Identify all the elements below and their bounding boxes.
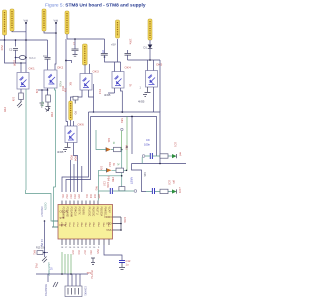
IC left pin stubs [52, 221, 58, 227]
IC bottom pin stubs [62, 239, 109, 245]
wire teal1 into IC [26, 190, 58, 221]
wire rail corner down at x104.5 [104, 39, 106, 54]
ground C7 [73, 55, 78, 57]
parts under OK6 [63, 143, 71, 152]
svg-text:+5V: +5V [111, 43, 116, 47]
wire label Y2 link [12, 30, 26, 33]
wire rail2 [67, 38, 105, 40]
resistor R14 [160, 189, 168, 193]
capacitor C2 [13, 49, 18, 51]
svg-text:ST8: ST8 [60, 216, 65, 220]
wire C5 to box4 pins [105, 55, 121, 71]
connector pins [68, 274, 80, 286]
optocoupler OK1 [17, 73, 29, 90]
resistor R2 [46, 95, 51, 102]
diode D1 [148, 45, 153, 49]
wire branch right [66, 61, 72, 64]
rail mid1 [89, 112, 161, 164]
wire cap to box2 [47, 59, 49, 70]
svg-text:C9: C9 [146, 138, 150, 142]
wire Y8 drop to OK6 [66, 120, 71, 126]
wire OK4 right-bottom down [121, 88, 123, 112]
wire row A [96, 130, 122, 150]
wire drop from rail [132, 164, 147, 192]
svg-text:R13: R13 [143, 172, 146, 177]
svg-text:PE5: PE5 [96, 249, 99, 254]
wire teal2 into IC [54, 187, 58, 227]
svg-text:BC8: BC8 [41, 102, 44, 107]
svg-text:PD: PD [74, 111, 77, 115]
svg-text:OK2: OK2 [57, 66, 63, 70]
svg-text:OSCIN: OSCIN [44, 203, 47, 211]
svg-text:PD3: PD3 [70, 155, 73, 160]
junction [104, 56, 106, 58]
wire label Y3 link [44, 31, 56, 33]
wire xtal node down [15, 58, 17, 64]
wire row2 [145, 155, 172, 157]
pin circle row2 [142, 155, 145, 158]
svg-text:PD5/TX: PD5/TX [78, 207, 80, 216]
junction [25, 39, 27, 41]
capacitor C12 [119, 261, 125, 263]
wire OK6 out down right [74, 143, 78, 193]
wire OK3 left-bottom to Y8 [71, 90, 83, 101]
capacitor C11 [152, 188, 154, 194]
node VDD1 dot [25, 22, 27, 24]
junction [74, 38, 76, 40]
svg-text:OK3: OK3 [93, 70, 99, 74]
svg-text:SWIM/PD1: SWIM/PD1 [44, 284, 47, 296]
wire label Y1 drop [4, 35, 6, 40]
wire right of circle [146, 191, 172, 193]
IC right pin stubs + bracket [113, 217, 122, 230]
red labels under IC [71, 250, 91, 255]
wire OK3 right-bottom down [89, 90, 94, 97]
svg-text:8MHz: 8MHz [29, 56, 36, 60]
wire C6 down to y60 line [127, 55, 129, 60]
resistor R16 on drop [119, 187, 125, 191]
node VDD2 dot [55, 22, 57, 24]
svg-text:PA3: PA3 [94, 186, 97, 191]
svg-text:PD4/CLK: PD4/CLK [74, 207, 76, 217]
svg-text:PD4: PD4 [73, 194, 75, 199]
wire OK5 right-bottom [154, 60, 161, 112]
capacitor C9 [150, 153, 152, 159]
capacitor C2 top stub [15, 40, 17, 47]
wire Y6 drop to OK3 [84, 64, 86, 74]
svg-text:R15 10k: R15 10k [36, 247, 46, 250]
wire drop x132 [131, 117, 133, 155]
junction [65, 60, 67, 62]
svg-text:C2: C2 [9, 48, 13, 52]
net label Y6 [83, 44, 88, 65]
svg-text:PD2: PD2 [65, 194, 67, 199]
transistor T1 [45, 102, 51, 112]
net label Y1 [3, 10, 7, 35]
diode D3 [107, 168, 112, 172]
capacitor C4 [45, 58, 51, 60]
junction [126, 170, 128, 172]
svg-text:VSS: VSS [106, 228, 111, 232]
wire OK6 right top stub [73, 121, 75, 126]
svg-text:Vdd: Vdd [54, 19, 59, 23]
rail mid2 [91, 117, 157, 157]
wire xtal left [16, 57, 20, 59]
wire under OK2 [38, 88, 48, 90]
junction [131, 116, 133, 118]
bottom right: cap to gnd [104, 245, 122, 260]
wire left branch [5, 40, 27, 63]
junction [20, 62, 22, 64]
svg-text:PD1: PD1 [61, 194, 63, 199]
capacitor C5 [101, 54, 108, 56]
svg-text:PD3: PD3 [69, 194, 71, 199]
diode D2 [106, 147, 111, 151]
wire OK4 left-bottom [108, 88, 115, 93]
junction [121, 111, 123, 113]
wire teal down from rowA [121, 150, 123, 187]
svg-text:PB4/SCL: PB4/SCL [104, 207, 106, 217]
junction [126, 146, 128, 148]
svg-text:OSCOUT: OSCOUT [40, 207, 43, 218]
net label Y8 [69, 101, 73, 120]
connector CON1 [65, 286, 82, 297]
capacitor C6 [125, 54, 132, 56]
IC internal left labels [60, 210, 68, 228]
teal drop to row C [98, 170, 100, 191]
LED LD1 [172, 154, 177, 158]
pin circle [121, 128, 123, 130]
wire C2 to xtal node [15, 50, 17, 57]
wire to box1 pins [21, 63, 26, 73]
svg-text:C4: C4 [43, 54, 47, 58]
optocoupler OK3 [80, 74, 92, 91]
svg-text:D1: D1 [144, 46, 148, 50]
ground under C12 [119, 263, 125, 270]
wire row C [99, 190, 135, 192]
red pin labels above IC [61, 194, 99, 199]
svg-text:OK1: OK1 [29, 67, 35, 71]
resistor R1 under OK1 [20, 89, 22, 93]
wire y60 line to box5 [128, 60, 161, 71]
net label Y3 [42, 9, 46, 31]
optocoupler OK4 [112, 72, 124, 89]
svg-text:1u: 1u [126, 263, 129, 267]
svg-text:OK5: OK5 [156, 63, 162, 67]
wire OK2 out (long teal) [55, 88, 56, 187]
net label Y5 [116, 20, 120, 38]
svg-text:PC6: PC6 [77, 250, 79, 255]
svg-text:VDDN: VDDN [104, 215, 111, 219]
wire node1 vertical [25, 23, 27, 63]
parts under OK5 [143, 87, 151, 97]
IC internal top pin names [62, 207, 111, 218]
small resistor right [73, 96, 78, 100]
IC U1 [58, 205, 113, 240]
capacitor C7 [72, 49, 79, 51]
small gnd left [91, 258, 95, 265]
LED green [172, 189, 177, 193]
resistor R10 [160, 154, 168, 158]
svg-text:PD5: PD5 [77, 194, 79, 199]
svg-text:OSCIN: OSCIN [60, 210, 68, 214]
wire C7 stubs [74, 39, 76, 54]
ground under R1 [17, 100, 22, 108]
svg-text:OK4: OK4 [125, 66, 131, 70]
wire Y4 long drop to label H [65, 39, 67, 122]
junction [55, 32, 57, 34]
capacitor C10 [110, 188, 112, 194]
wire rail corner down [47, 40, 49, 57]
svg-text:CON4X1: CON4X1 [84, 286, 87, 296]
svg-text:4N35: 4N35 [57, 150, 64, 154]
optocoupler OK5 [146, 71, 158, 88]
optocoupler OK6 [65, 126, 77, 143]
wire OK3 right top [89, 64, 91, 74]
junction [121, 149, 123, 151]
svg-text:4N35: 4N35 [138, 100, 145, 104]
svg-text:PD6/RX: PD6/RX [82, 207, 84, 216]
svg-text:100n: 100n [144, 143, 150, 147]
wire label Y4 drop to rail2 [66, 34, 68, 39]
long wire y163 [132, 163, 187, 165]
wire node2 vertical [55, 23, 56, 70]
svg-text:4N35: 4N35 [104, 93, 111, 97]
svg-text:OK6: OK6 [78, 123, 84, 127]
svg-text:PD4: PD4 [74, 156, 77, 161]
svg-text:Figure 5: STM8 Uni board - STM: Figure 5: STM8 Uni board - STM8 and supp… [45, 3, 146, 9]
wire rail top-left [0, 39, 48, 41]
svg-text:Vdd: Vdd [24, 19, 29, 23]
svg-text:PB5: PB5 [97, 194, 99, 199]
wires into IC top [62, 112, 89, 192]
wire green long [126, 117, 128, 171]
svg-text:PC7: PC7 [83, 250, 85, 255]
IC bottom internal labels [62, 221, 111, 226]
wire OK1 out (long teal) [25, 89, 27, 190]
wire label Y5 drop [117, 39, 119, 62]
net label Y2 [10, 9, 14, 31]
crystal Q1 [19, 56, 25, 60]
optocoupler OK2 [44, 70, 57, 88]
teal row under B [99, 175, 122, 177]
wire rowC left drop [97, 191, 99, 201]
resistor R12 [116, 168, 124, 172]
wire green drop [121, 131, 123, 150]
svg-text:PB0: PB0 [89, 250, 91, 255]
resistor R11 [114, 147, 122, 151]
wire from dot down [44, 221, 46, 253]
pin circle open [134, 190, 137, 193]
wire purple down to rail [93, 84, 95, 112]
net label Y7 [148, 19, 152, 40]
svg-text:PD7/TLI: PD7/TLI [90, 270, 93, 279]
bottom pin labels [61, 247, 100, 249]
svg-text:RX: RX [69, 82, 72, 86]
green wires IC bottom to connector [62, 252, 71, 274]
wire left drop [141, 157, 143, 163]
IC internal right labels [104, 215, 112, 232]
wire drop to C6 [127, 50, 129, 54]
wire xtal right [25, 57, 27, 59]
wire row B [99, 169, 127, 171]
wire horizontal bottom [36, 273, 88, 275]
junction [4, 39, 6, 41]
IC top pin stubs [62, 201, 98, 205]
ground slant [53, 282, 58, 287]
junction [93, 111, 95, 113]
wire Y7 to D1 to OK5 [148, 40, 151, 71]
net label Y4 [65, 11, 69, 34]
svg-text:C12: C12 [126, 259, 131, 263]
